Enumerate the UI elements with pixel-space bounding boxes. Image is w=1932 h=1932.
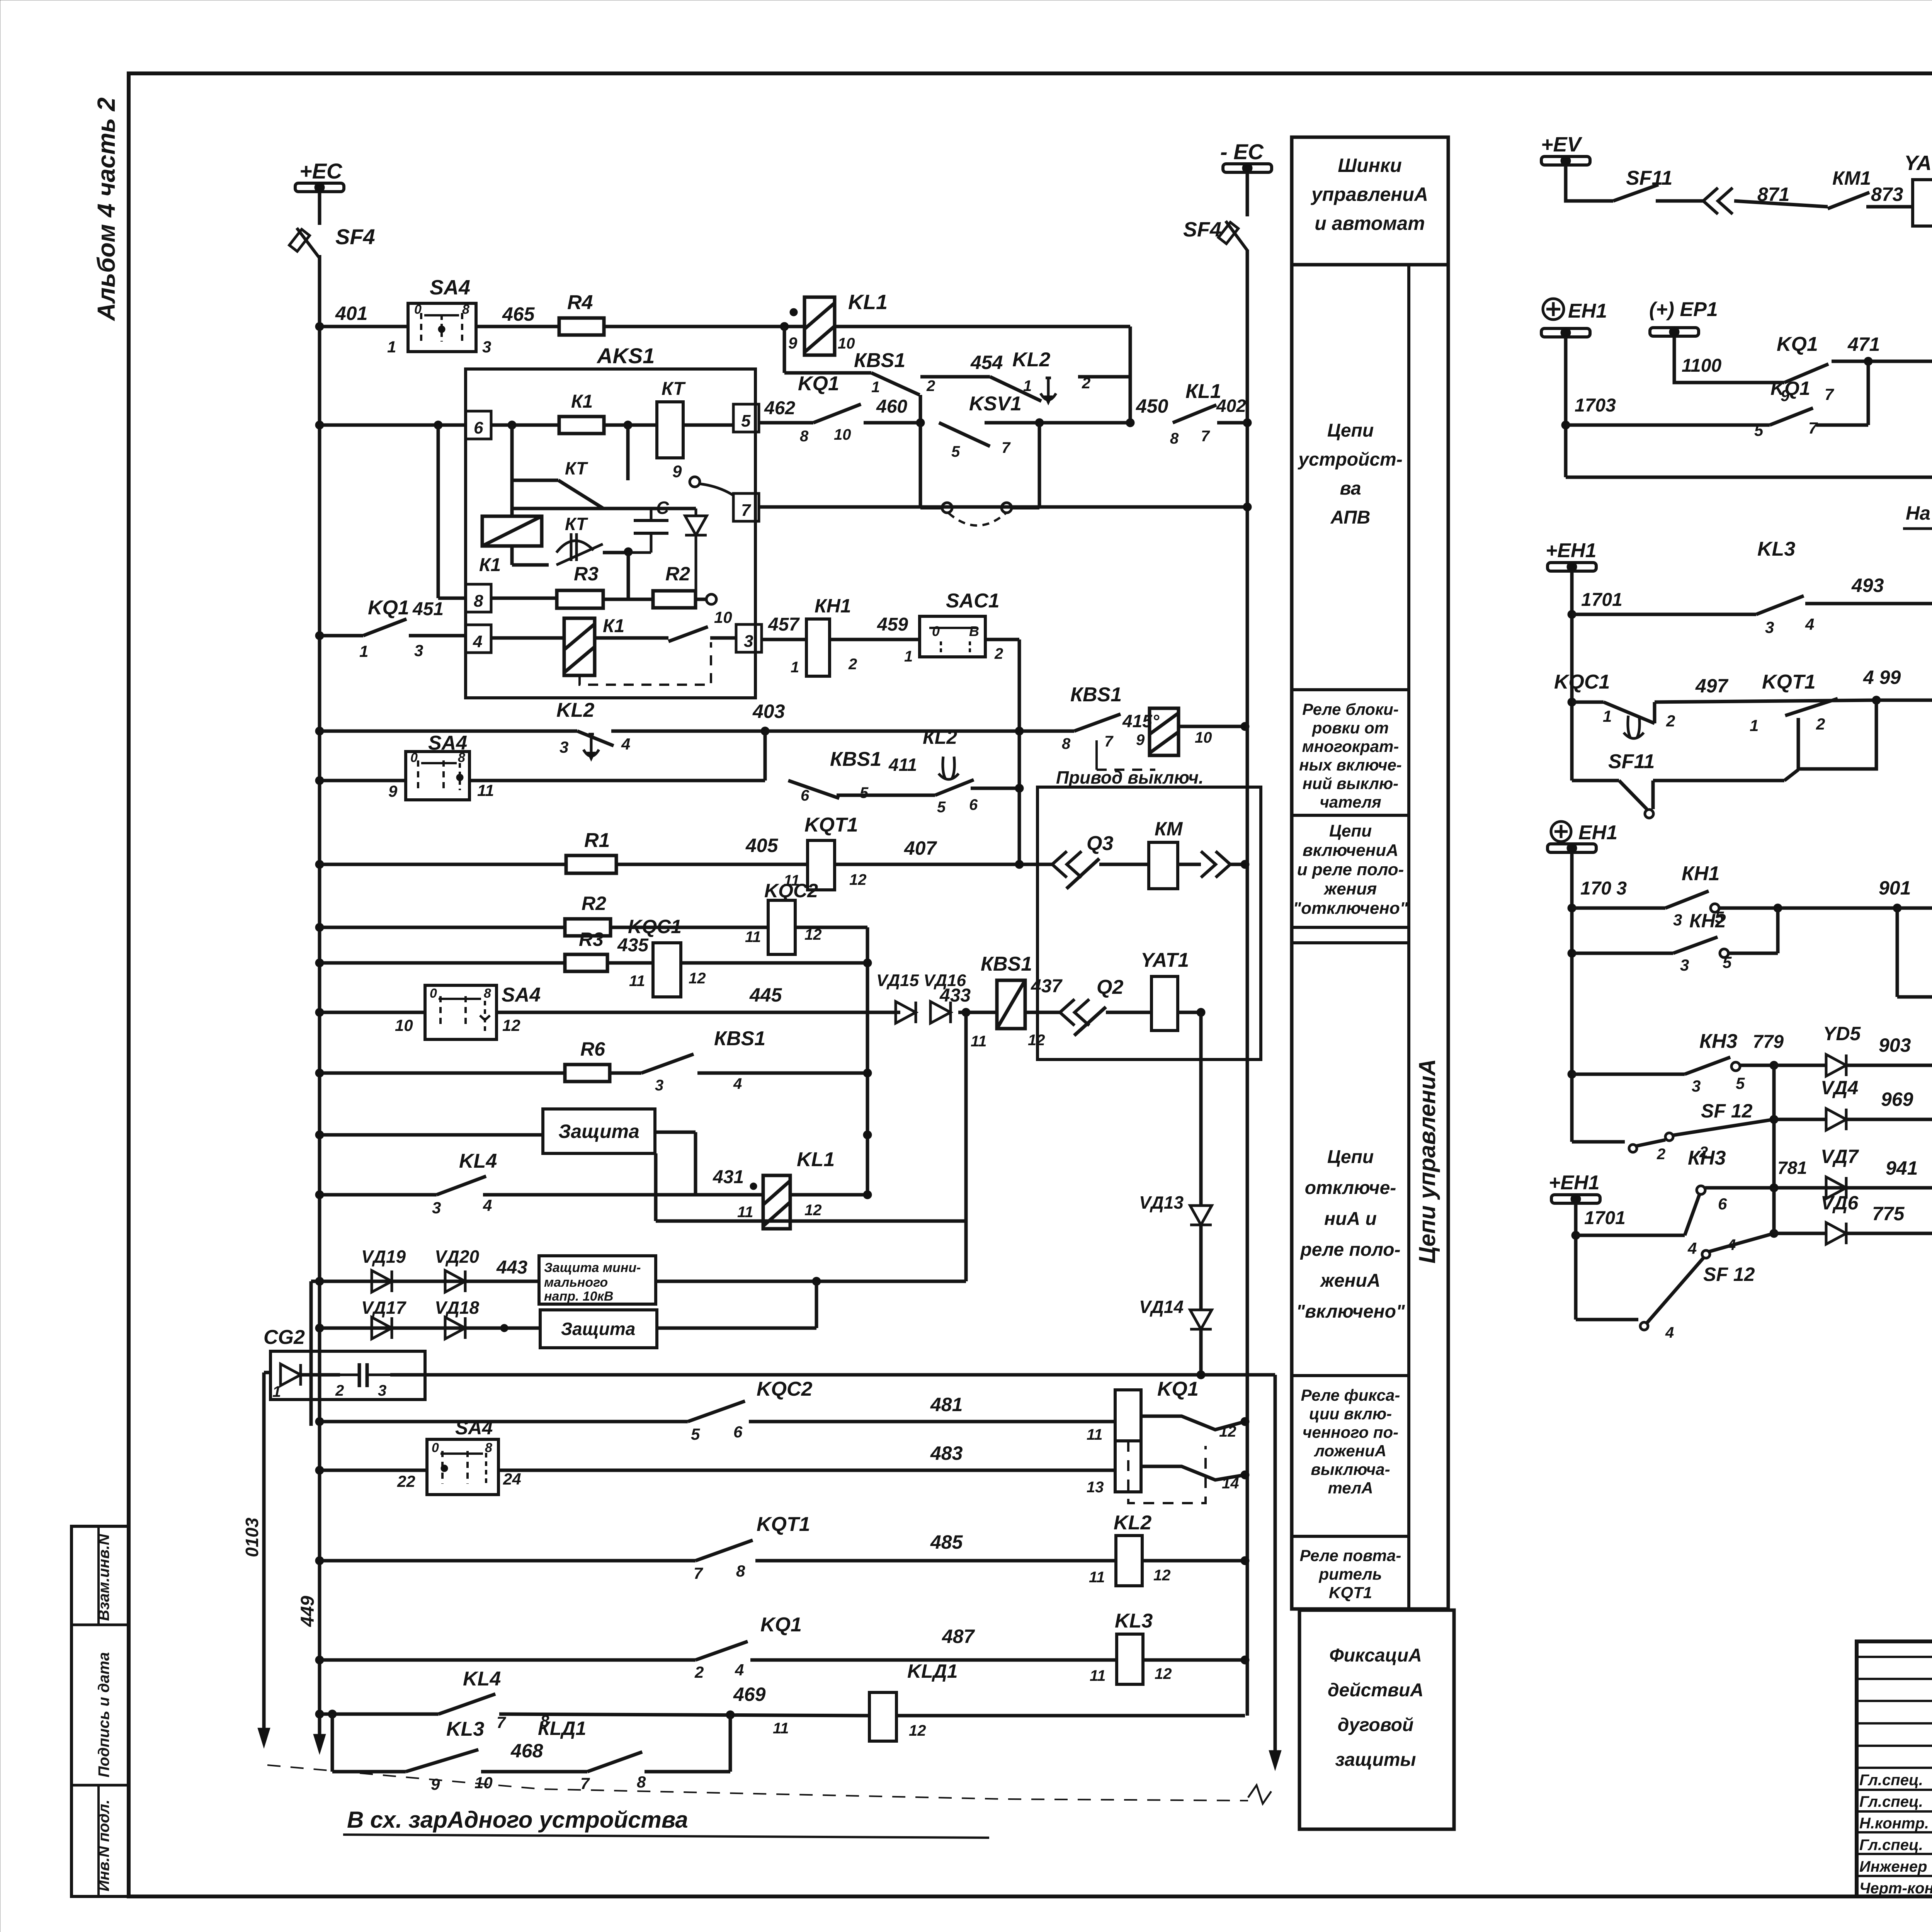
label VD6 (1821, 1192, 1859, 1214)
interlock arc (949, 513, 1006, 526)
svg-text:Инв.N подл.: Инв.N подл. (95, 1799, 112, 1891)
contact KBS1 6-5 (788, 781, 839, 798)
wire K1 coil bottom (512, 546, 549, 565)
pin 2 KBS1 (926, 378, 935, 395)
contact KT (512, 480, 603, 508)
signature row line 8 (1857, 1810, 1932, 1813)
wire EH1b rail (1570, 571, 1574, 781)
pin 9 415 (1136, 731, 1145, 748)
wire 485 (755, 1559, 1116, 1563)
svg-text:460: 460 (876, 396, 907, 417)
wire KM out (1178, 863, 1201, 866)
svg-text:9: 9 (388, 782, 398, 800)
text Шинки управления и автомат (1310, 155, 1428, 234)
interlock KSV1 left (920, 423, 942, 508)
pin 8 415 (1062, 735, 1071, 752)
wire latch out2 (1141, 1466, 1245, 1480)
label 468 (510, 1740, 543, 1762)
label 471 (1847, 333, 1880, 355)
svg-text:KLД1: KLД1 (907, 1660, 958, 1682)
label 459 (877, 614, 908, 635)
label 454 (970, 352, 1003, 373)
relay K1 coil top (559, 417, 604, 434)
pin 7 415 (1104, 733, 1114, 750)
wire +EV drop (1566, 165, 1613, 201)
wire -EC top (1246, 172, 1249, 216)
svg-text:7: 7 (1201, 428, 1210, 445)
pin 2 SAC1 (994, 645, 1003, 662)
svg-text:выключа-: выключа- (1311, 1460, 1390, 1478)
svg-text:4: 4 (483, 1196, 492, 1214)
pin 3 KL4 (432, 1199, 441, 1217)
junction KL1 row (780, 308, 798, 331)
pin box 3 (736, 624, 762, 652)
wire KQT1 to box (835, 863, 1052, 866)
svg-text:К1: К1 (571, 391, 593, 412)
section divider 4 (1292, 1374, 1409, 1377)
svg-text:7: 7 (497, 1713, 506, 1731)
wire KL1b right (790, 1193, 867, 1197)
label SF11 top (1626, 167, 1672, 189)
wire SF12a out (1673, 1119, 1774, 1135)
svg-text:8: 8 (1062, 735, 1071, 752)
svg-text:R4: R4 (567, 291, 593, 314)
junction 1701 d (1571, 1231, 1580, 1240)
label KQT1 499 (1762, 671, 1816, 693)
label SF4 right (1183, 218, 1221, 241)
column strip label Цепи управления (1414, 1059, 1440, 1264)
svg-text:4: 4 (1805, 615, 1814, 633)
svg-text:и автомат: и автомат (1315, 213, 1425, 234)
arrow KM out (1201, 851, 1230, 878)
svg-text:7: 7 (1104, 733, 1114, 750)
section divider 1 (1292, 688, 1409, 691)
svg-text:10: 10 (834, 426, 851, 443)
pin 4 KH3d (1687, 1239, 1697, 1257)
junction 1701 b (1568, 610, 1576, 619)
wire EP1 drop (1674, 336, 1784, 383)
wire R6 to KBS1c (610, 1071, 641, 1075)
svg-text:К1: К1 (479, 555, 501, 575)
wire 483 (498, 1469, 1115, 1472)
svg-text:С: С (656, 498, 669, 518)
svg-text:449: 449 (298, 1596, 318, 1627)
pin 9 97 (1781, 386, 1790, 405)
svg-text:775: 775 (1872, 1203, 1905, 1225)
wire KT contact drop (510, 425, 514, 516)
arrow 871 left (1703, 188, 1733, 214)
label 437 (1031, 976, 1063, 997)
wire row KH1 (1572, 906, 1665, 910)
label KQT1 coil (804, 814, 858, 836)
svg-text:873: 873 (1871, 184, 1903, 205)
label Q3 (1087, 832, 1113, 855)
resistor R4 (559, 318, 604, 335)
underline на блоке (1903, 527, 1932, 530)
junction VD4 row (1770, 1115, 1778, 1124)
relay KQT1 coil (808, 840, 835, 890)
svg-text:431: 431 (713, 1167, 744, 1187)
wire R2 to KQC2 (611, 926, 768, 929)
label 1703 a (1575, 395, 1616, 416)
pin 11 KQT1 (784, 872, 800, 889)
svg-text:4: 4 (735, 1661, 744, 1679)
svg-text:3: 3 (1765, 618, 1774, 636)
pin 3 451 (414, 641, 423, 660)
pin box 7 (733, 493, 759, 521)
svg-text:ложениА: ложениА (1314, 1442, 1386, 1460)
svg-text:VД14: VД14 (1139, 1297, 1184, 1317)
contact KM1 a (1828, 192, 1869, 209)
pin 6 KQC2c (733, 1423, 743, 1441)
label YD5 (1823, 1023, 1861, 1044)
pin 2 SF12a (1656, 1146, 1665, 1163)
label KQ1 57 (1770, 378, 1810, 399)
label K1 coil (479, 555, 501, 575)
label KQ1 contact2 (760, 1614, 802, 1636)
label SA4 box1 (430, 276, 470, 299)
svg-text:YAT1: YAT1 (1141, 949, 1189, 971)
wire R3 to KQC1 (607, 961, 653, 965)
wire K1KT to C (603, 548, 633, 600)
wire x4591 link1 (1772, 1065, 1776, 1188)
wire VD14 to CG2row (1199, 1329, 1203, 1372)
wire KH1 out (1719, 906, 1897, 910)
dashed link 415 (1097, 740, 1155, 770)
pin box 8 (466, 584, 491, 612)
label 407 (904, 837, 937, 859)
wire KL1 to corner (835, 327, 1130, 423)
junction +EC rail y1645 (315, 631, 324, 640)
wire R3 R2 (603, 598, 653, 601)
signature row Иванова (1859, 1858, 1932, 1875)
svg-text:VД6: VД6 (1821, 1192, 1859, 1214)
label 449 (298, 1596, 318, 1627)
relay KL1 lower (763, 1175, 790, 1229)
diode VD19 (372, 1270, 392, 1292)
wire -EC rail (1246, 250, 1249, 1716)
svg-text:1: 1 (387, 338, 396, 356)
relay KT coil (657, 402, 683, 458)
switch SA4 box2 (406, 750, 469, 800)
svg-text:KL4: KL4 (463, 1668, 501, 1690)
wire row1094 (759, 421, 813, 425)
pin 12 latch (1219, 1423, 1236, 1440)
pin 9 SA4b2 (388, 782, 398, 800)
pin 12 SA4b3 (502, 1016, 520, 1034)
label 450 (1136, 395, 1168, 417)
circle SF11 c (1645, 810, 1653, 818)
label R4 (567, 291, 593, 314)
wire KBS1 to Q2 (1025, 1011, 1060, 1014)
svg-text:(+) EP1: (+) EP1 (1649, 298, 1718, 321)
contact KLD1 7-8 (587, 1752, 642, 1772)
wire KL1b bottom link (656, 1153, 966, 1221)
junction row1892 x2638 (1015, 727, 1024, 735)
svg-text:493: 493 (1851, 575, 1884, 596)
wire KH3 out (1740, 1064, 1774, 1067)
pin 12 KL2co (1153, 1567, 1171, 1584)
pin 11 KL1b (737, 1204, 753, 1221)
svg-text:8: 8 (800, 428, 809, 445)
svg-text:2: 2 (1816, 715, 1825, 733)
wire 451 left (320, 634, 363, 638)
svg-text:реле поло-: реле поло- (1299, 1240, 1400, 1260)
svg-text:ных включе-: ных включе- (1299, 756, 1402, 774)
label KL2 coil (1114, 1512, 1151, 1534)
diode YD5 (1826, 1054, 1846, 1076)
svg-text:3: 3 (482, 338, 491, 356)
svg-text:7: 7 (1825, 385, 1834, 403)
svg-text:4 99: 4 99 (1863, 667, 1901, 688)
svg-text:24: 24 (503, 1470, 521, 1488)
svg-text:407: 407 (904, 837, 937, 859)
svg-text:Шинки: Шинки (1338, 155, 1402, 176)
svg-text:12: 12 (804, 1202, 822, 1219)
svg-text:VД18: VД18 (435, 1298, 479, 1318)
section text Цепи включения (1293, 821, 1408, 918)
label KQC1 497 (1554, 671, 1610, 693)
junction rail 3679 (1241, 1417, 1249, 1426)
label 901 (1879, 877, 1911, 899)
svg-text:KL2: KL2 (1114, 1512, 1151, 1534)
label 431 (713, 1167, 744, 1187)
wire 487 (750, 1658, 1117, 1662)
wire CG2 down (1274, 1375, 1277, 1750)
svg-text:3: 3 (1692, 1077, 1701, 1095)
svg-text:KQ1: KQ1 (1770, 378, 1810, 399)
svg-text:отключе-: отключе- (1305, 1178, 1396, 1198)
wire rowR2 left (320, 926, 565, 929)
label 1701 d (1584, 1208, 1626, 1228)
svg-text:КН1: КН1 (815, 595, 851, 617)
bus bar +EV (1541, 156, 1590, 166)
svg-text:КМ: КМ (1155, 818, 1183, 840)
svg-text:435: 435 (617, 935, 649, 956)
contact KH2 3-5 (1673, 937, 1718, 953)
device Привод box (1037, 787, 1261, 1060)
pin 3 KH1c (1673, 911, 1682, 929)
signature row Горелик (1859, 1815, 1932, 1832)
svg-text:12: 12 (689, 970, 706, 987)
svg-text:Цепи управлениА: Цепи управлениА (1414, 1059, 1440, 1264)
contact KH1 3-5 (1665, 891, 1709, 908)
svg-text:3: 3 (1673, 911, 1682, 929)
pin 5 KBS1 (860, 784, 869, 801)
pin 1 KH1 (791, 659, 799, 676)
svg-text:Н.контр.: Н.контр. (1859, 1815, 1929, 1832)
svg-text:КН3: КН3 (1688, 1147, 1726, 1169)
pin 3 KH2c (1680, 956, 1689, 974)
pin 7 97 (1825, 385, 1834, 403)
svg-text:VД15: VД15 (876, 971, 919, 990)
signature row line 5 (1857, 1745, 1932, 1747)
svg-text:1: 1 (904, 648, 913, 665)
arrow CG2 down (1269, 1750, 1281, 1770)
label Q2 (1097, 976, 1123, 998)
svg-text:+EV: +EV (1541, 133, 1583, 156)
wire KH2 row (1876, 699, 1932, 702)
svg-text:2: 2 (1656, 1146, 1665, 1163)
svg-text:3: 3 (378, 1382, 386, 1399)
pin 3 493 (1765, 618, 1774, 636)
wire 468 right (645, 1715, 730, 1772)
contact SF11 c (1619, 781, 1647, 809)
svg-text:2: 2 (335, 1382, 344, 1399)
svg-text:SF11: SF11 (1626, 167, 1672, 189)
label K1 lower (603, 616, 624, 636)
junction VD13 top (1197, 1008, 1205, 1017)
svg-text:Подпись и дата: Подпись и дата (95, 1652, 112, 1777)
label SA4 box4 (455, 1417, 493, 1439)
junction 497 right (1872, 696, 1881, 704)
svg-text:8: 8 (485, 1440, 492, 1455)
svg-text:8: 8 (462, 302, 469, 317)
breaker Q3 (1052, 851, 1099, 889)
arrow 0103 (258, 1728, 270, 1748)
label 415 (1122, 711, 1160, 731)
wire row1100 right (1566, 423, 1770, 427)
wire 873 (1866, 205, 1913, 209)
svg-text:5: 5 (951, 443, 960, 460)
svg-text:6: 6 (733, 1423, 743, 1441)
pin 12 KL1b (804, 1202, 822, 1219)
label KL3 contact (446, 1718, 484, 1740)
svg-text:3: 3 (1680, 956, 1689, 974)
svg-text:SA4: SA4 (502, 984, 541, 1006)
circle SF12a 2 (1665, 1133, 1673, 1141)
svg-text:КВS1: КВS1 (830, 748, 881, 770)
svg-text:KL4: KL4 (459, 1150, 497, 1172)
contact KQC2 5-6 (688, 1401, 745, 1422)
wire 0103 drop (262, 1372, 266, 1728)
svg-text:KL3: KL3 (1115, 1610, 1153, 1632)
label KM1 a (1832, 167, 1871, 189)
wire SAC1 out (985, 639, 1019, 864)
wire row1701d (1576, 1234, 1685, 1237)
svg-text:КМ1: КМ1 (1832, 167, 1871, 189)
pin 4 KL2 (621, 735, 630, 753)
svg-text:напр. 10кВ: напр. 10кВ (544, 1289, 613, 1304)
wire bus 1100 (320, 423, 466, 427)
stamp label Подпись и дата (95, 1652, 112, 1777)
svg-text:КL2: КL2 (923, 726, 957, 748)
svg-text:КВS1: КВS1 (714, 1027, 765, 1050)
svg-text:8: 8 (1170, 430, 1179, 447)
contact SF12 b (1647, 1258, 1703, 1323)
pin 1 499 (1750, 716, 1759, 735)
label SF12 a (1701, 1100, 1753, 1122)
svg-text:3: 3 (560, 738, 568, 756)
svg-text:многократ-: многократ- (1302, 737, 1399, 755)
wire latch out1 (1141, 1416, 1245, 1430)
pin 4 KQ1c (735, 1661, 744, 1679)
svg-text:2: 2 (926, 378, 935, 395)
svg-text:471: 471 (1847, 333, 1880, 355)
svg-text:ва: ва (1340, 478, 1361, 499)
diode VD13 (1190, 1206, 1212, 1225)
pin 11 KL2co (1089, 1569, 1105, 1586)
label VD20 (435, 1247, 479, 1267)
svg-text:0: 0 (414, 302, 422, 317)
text Защита мин (544, 1260, 641, 1304)
bus bar EH1 a (1541, 328, 1590, 338)
wire защита out (655, 1132, 696, 1195)
svg-text:1: 1 (871, 379, 880, 396)
svg-text:2: 2 (994, 645, 1003, 662)
svg-text:3: 3 (432, 1199, 441, 1217)
label KT contact (565, 458, 588, 478)
wire VD13 chain (1199, 1012, 1203, 1206)
label KL1 (848, 291, 888, 314)
wire KL2 to rail (1078, 375, 1130, 379)
label 485 (930, 1531, 963, 1553)
label KQ1 97 (1777, 333, 1818, 355)
junction 901 (1893, 904, 1901, 912)
bus bar EH1 c (1548, 843, 1596, 853)
contact KL2 454 (990, 377, 1056, 405)
svg-text:AKS1: AKS1 (596, 344, 655, 368)
column box Фиксация действия (1299, 1610, 1454, 1829)
svg-text:402: 402 (1216, 396, 1246, 416)
label KL1 lower (797, 1148, 835, 1171)
wire 411 to x2638 (971, 787, 1019, 790)
label KSV1 (969, 393, 1022, 415)
wire EH1a row2 (1566, 476, 1932, 479)
junction +EC rail y2400 (315, 923, 324, 932)
wire to rail 2237 (1230, 863, 1245, 866)
svg-text:5: 5 (937, 799, 946, 816)
svg-text:1: 1 (1603, 707, 1612, 725)
wire contact to pin3 (710, 636, 736, 640)
svg-text:0: 0 (430, 986, 437, 1001)
stamp divider 2 (71, 1784, 129, 1787)
svg-text:KQ1: KQ1 (368, 597, 409, 619)
wire EH1a drop (1564, 337, 1568, 477)
label KL2 411 (923, 726, 957, 748)
pin 3 KBS1c (655, 1077, 663, 1094)
svg-text:Гл.спец.: Гл.спец. (1859, 1772, 1923, 1789)
diode VD6 (1826, 1223, 1846, 1244)
breaker SF4 right (1218, 221, 1247, 250)
wire 497 (1655, 700, 1876, 723)
svg-text:7: 7 (694, 1564, 703, 1582)
label YAT1 (1141, 949, 1189, 971)
section text Реле блокировки (1299, 700, 1402, 811)
bus bar EP1 (1650, 327, 1699, 337)
svg-text:969: 969 (1881, 1088, 1913, 1110)
svg-text:КТ: КТ (565, 458, 588, 478)
label 469 (733, 1684, 766, 1705)
junction 471 (1864, 357, 1872, 366)
stamp divider 1 (71, 1624, 129, 1626)
text На блоке управления (1906, 502, 1932, 524)
label 445 (749, 984, 782, 1006)
label KH3 46 (1688, 1147, 1726, 1169)
svg-text:KQT1: KQT1 (757, 1513, 810, 1536)
junction +EC rail y1100 (315, 421, 324, 429)
pin 11 KQC2 (745, 929, 761, 946)
contact 9 circle (672, 462, 700, 487)
svg-text:защиты: защиты (1335, 1750, 1416, 1770)
svg-text:VД19: VД19 (361, 1247, 406, 1267)
label 487 (942, 1626, 975, 1647)
wire R4 to KL1 (604, 325, 804, 328)
junction K1 left (508, 421, 516, 429)
svg-text:VД7: VД7 (1821, 1146, 1859, 1167)
svg-text:Гл.спец.: Гл.спец. (1859, 1793, 1923, 1810)
svg-text:4: 4 (1687, 1239, 1697, 1257)
